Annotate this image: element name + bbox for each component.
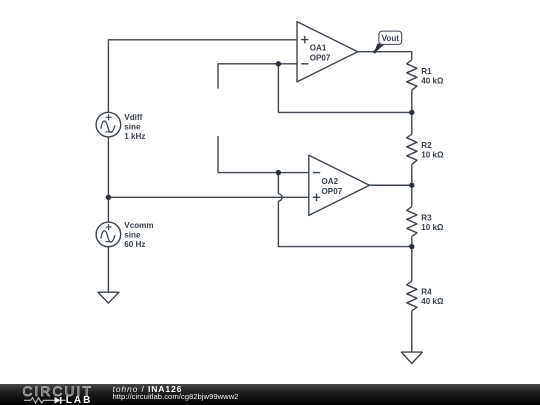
voltage source Vdiff	[96, 112, 121, 137]
svg-text:OP07: OP07	[322, 187, 343, 196]
voltage source Vcomm	[96, 222, 121, 247]
svg-text:10 kΩ: 10 kΩ	[421, 223, 444, 232]
resistor R2	[407, 134, 444, 164]
svg-text:OA1: OA1	[310, 43, 327, 52]
node junction dot on OA1 minus input	[276, 61, 281, 66]
wire left rail between sources	[107, 137, 109, 222]
footer bar	[0, 384, 540, 405]
op-amp OA1	[297, 22, 358, 82]
svg-text:R4: R4	[421, 287, 432, 296]
svg-text:sine: sine	[124, 231, 141, 240]
wire feedback from OA1 minus to R1-R2 node	[278, 64, 411, 113]
svg-text:40 kΩ: 40 kΩ	[421, 77, 444, 86]
svg-text:Vdiff: Vdiff	[124, 113, 142, 122]
svg-text:R1: R1	[421, 67, 432, 76]
svg-text:R2: R2	[421, 141, 432, 150]
wire chain R2 to R3	[411, 164, 413, 206]
svg-text:40 kΩ: 40 kΩ	[421, 297, 444, 306]
ground (left, below Vcomm)	[98, 292, 119, 303]
resistor R3	[407, 207, 444, 237]
wire Vcomm to ground	[107, 247, 109, 293]
wire OA1 output to resistor chain	[358, 52, 412, 60]
svg-text:R3: R3	[421, 213, 432, 222]
svg-text:LAB: LAB	[66, 395, 93, 405]
node junction dot on OA2 minus input	[276, 170, 281, 175]
svg-text:Vcomm: Vcomm	[124, 221, 153, 230]
node Vout flag	[373, 31, 402, 53]
wire OA2 plus input from left rail junction	[108, 196, 309, 198]
wire open stub to OA2 minus input	[218, 136, 309, 173]
op-amp OA2	[309, 155, 370, 215]
wire chain R1 to R2	[411, 90, 413, 134]
svg-text:60 Hz: 60 Hz	[124, 240, 145, 249]
wire OA1 minus input with open stub	[218, 64, 297, 89]
resistor R1	[407, 60, 444, 90]
footer title text	[113, 385, 183, 394]
svg-text:OP07: OP07	[310, 54, 331, 63]
resistor R4	[407, 281, 444, 311]
footer url text	[113, 393, 239, 401]
wire OA2 output to resistor chain	[370, 184, 412, 186]
node junction dot R1-R2	[409, 110, 414, 115]
svg-text:10 kΩ: 10 kΩ	[421, 151, 444, 160]
wire chain R3 to R4	[411, 237, 413, 281]
ground (right, below R4)	[401, 352, 422, 363]
wire feedback from OA2 minus to R3-R4 node, with hop	[277, 173, 279, 194]
node junction dot OA2 output	[409, 183, 414, 188]
node junction dot R3-R4	[409, 244, 414, 249]
wire top: Vdiff plus to OA1 plus input	[108, 40, 297, 113]
svg-text:Vout: Vout	[382, 34, 400, 43]
wire chain R4 to ground	[411, 311, 413, 352]
logo CircuitLab	[0, 384, 110, 405]
node junction dot at Vdiff-Vcomm tap	[106, 195, 111, 200]
svg-text:OA2: OA2	[322, 177, 339, 186]
svg-text:sine: sine	[124, 122, 141, 131]
svg-text:1 kHz: 1 kHz	[124, 132, 145, 141]
